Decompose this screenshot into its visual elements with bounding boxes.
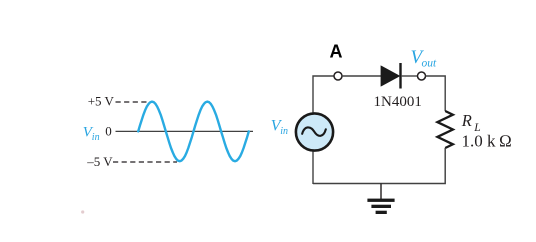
waveform zero axis (116, 130, 254, 132)
sine wave Vin (138, 102, 249, 162)
svg-text:1.0 k Ω: 1.0 k Ω (462, 131, 512, 150)
svg-text:–5 V: –5 V (86, 154, 113, 169)
svg-text:out: out (422, 58, 438, 70)
svg-text:in: in (92, 132, 100, 143)
wire bottom-left (source to bottom) (312, 150, 314, 184)
svg-text:0: 0 (105, 124, 112, 139)
node A terminal (334, 72, 342, 80)
dashed line -5 V level (113, 161, 177, 163)
source Vin (AC source) (296, 113, 333, 150)
svg-text:R: R (461, 111, 472, 130)
diode D1 1N4001 (381, 63, 402, 89)
wire diode to Vout terminal (402, 75, 418, 77)
dashed line +5 V level (116, 101, 150, 103)
svg-text:A: A (330, 42, 343, 62)
svg-text:+5 V: +5 V (88, 93, 115, 108)
node Vout terminal (418, 72, 426, 80)
wire top-right segment (426, 76, 446, 111)
wire node A to diode (342, 75, 382, 77)
wire resistor to bottom-right corner (313, 148, 445, 184)
svg-text:1N4001: 1N4001 (374, 94, 422, 110)
svg-text:in: in (280, 126, 288, 137)
ground (367, 184, 394, 215)
wire top-left segment (313, 76, 334, 114)
resistor RL (437, 111, 453, 148)
stray dot artifact (81, 210, 84, 213)
